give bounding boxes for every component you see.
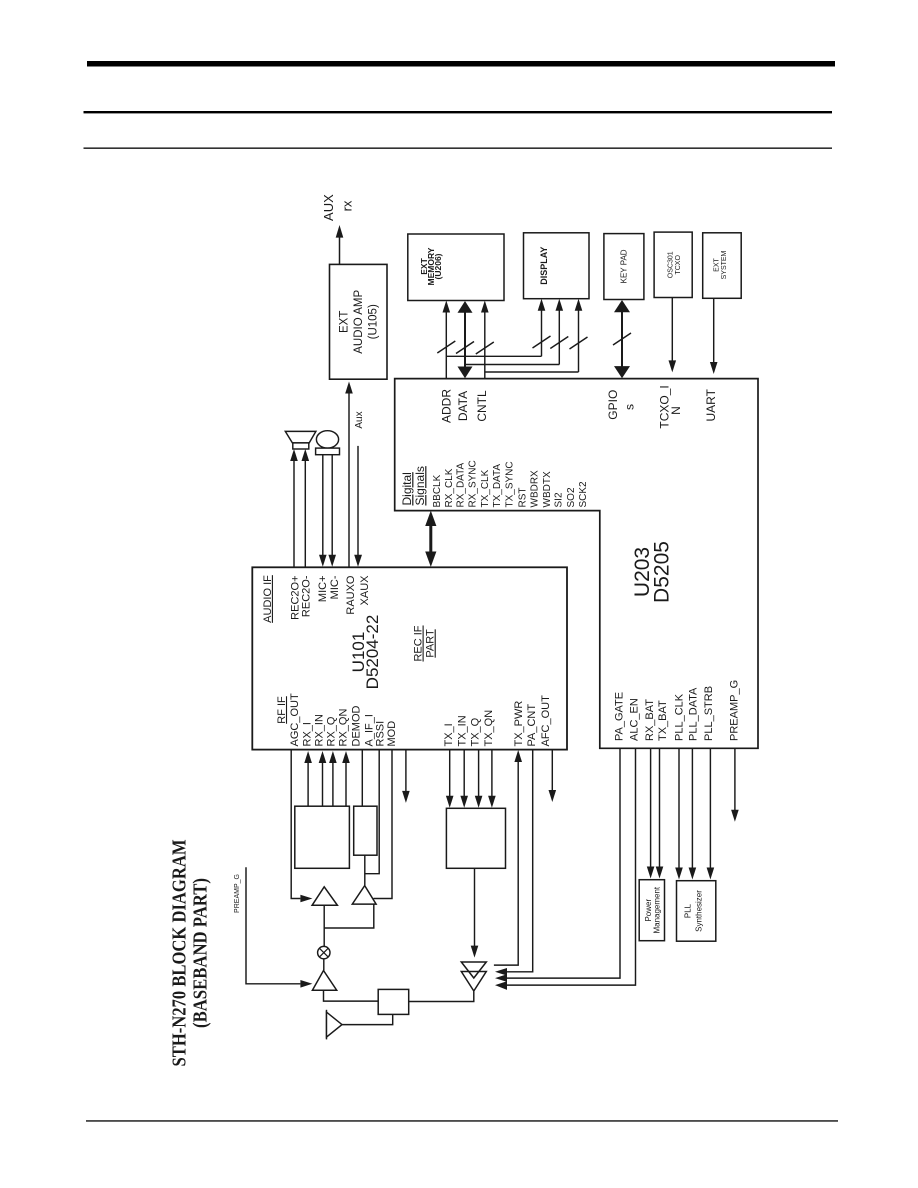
- pin label A_IF_I: [363, 714, 375, 746]
- speaker symbol: [285, 431, 316, 449]
- svg-text:REC2O-: REC2O-: [300, 575, 312, 617]
- wire AGC_OUT to amp A1: [291, 750, 312, 903]
- svg-text:Signals: Signals: [413, 466, 427, 505]
- pin label TCXO_IN: [658, 385, 684, 428]
- antenna ANT: [327, 1010, 343, 1040]
- bus slash DISPLAY 3: [570, 337, 588, 349]
- svg-text:RAUXO: RAUXO: [345, 575, 357, 615]
- wire RSSI to amp A2: [374, 750, 393, 899]
- wire RX_I from filter: [304, 751, 312, 806]
- pin label PREAMP_G: [728, 680, 740, 741]
- pin label PLL_DATA: [687, 687, 699, 741]
- pin label RX_CLK: [444, 468, 455, 507]
- pin label RAUXO: [345, 575, 357, 615]
- svg-text:PA_GATE: PA_GATE: [613, 692, 625, 741]
- wire AFC_OUT output arrow: [549, 750, 557, 803]
- block RX filter: [295, 806, 350, 868]
- svg-text:RX_CLK: RX_CLK: [444, 468, 455, 507]
- pin label RX_QN: [337, 709, 349, 747]
- svg-text:RSSI: RSSI: [374, 721, 386, 747]
- wire RX_QN from filter: [342, 751, 350, 806]
- svg-text:Aux: Aux: [354, 411, 365, 428]
- wire PLL_STRB to PLL Synthesizer: [707, 748, 715, 879]
- svg-text:D5205: D5205: [650, 541, 673, 603]
- header medium rule: [84, 111, 833, 113]
- wire TX_QN to TX filter: [488, 750, 496, 808]
- pin label TX_BAT: [657, 700, 669, 741]
- wire DATA bus double arrow: [458, 301, 473, 378]
- wire digital bus double arrow U203-U101: [425, 511, 436, 567]
- pin label PA_CNT: [526, 704, 538, 747]
- pin label ADDR: [440, 389, 454, 423]
- svg-text:UART: UART: [704, 388, 718, 421]
- block PLL Synthesizer: [677, 881, 716, 942]
- wire TX_PWR sense: [494, 750, 522, 965]
- svg-text:AUDIO AMP: AUDIO AMP: [353, 290, 365, 354]
- mixer M1: [318, 946, 330, 958]
- wire IF filter to amp A2: [364, 855, 366, 885]
- svg-text:TX_I: TX_I: [443, 723, 455, 746]
- pin label PLL_STRB: [703, 686, 715, 741]
- wire TX_I to TX filter: [446, 750, 454, 808]
- node PREAMP_G label: [234, 874, 241, 913]
- svg-text:AFC_OUT: AFC_OUT: [540, 695, 552, 747]
- wire A1 A2 output junction: [324, 904, 374, 947]
- svg-text:rx: rx: [339, 200, 354, 211]
- wire CNTL bus to EXT MEMORY: [481, 301, 489, 379]
- wire ADDR bus to EXT MEMORY: [443, 301, 451, 379]
- pin label RST: [517, 488, 528, 508]
- node AUX rx: [321, 194, 354, 221]
- amplifier A1: [312, 887, 337, 906]
- svg-text:TX_SYNC: TX_SYNC: [504, 461, 515, 507]
- wire DISPLAY bus 1: [446, 299, 545, 357]
- pin label TX_SYNC: [504, 461, 515, 507]
- wire PREAMP_G output arrow: [731, 748, 739, 821]
- wire TCXO_IN from OSC301: [669, 298, 677, 373]
- pin label TX_IN: [456, 715, 468, 746]
- wire MOD output arrow: [402, 750, 410, 803]
- svg-text:N: N: [669, 406, 683, 415]
- svg-text:RX_I: RX_I: [301, 722, 313, 746]
- wire duplexer to PA: [409, 991, 474, 1001]
- pin label UART: [704, 388, 718, 421]
- wire RX_IN from filter: [319, 751, 327, 806]
- block U101 D5204-22 outline: [252, 567, 567, 749]
- svg-text:RX_QN: RX_QN: [337, 709, 349, 747]
- svg-text:DATA: DATA: [456, 391, 470, 421]
- pin label XAUX: [359, 575, 371, 606]
- footer rule: [86, 1120, 838, 1121]
- pin label RX_IN: [313, 714, 325, 746]
- svg-text:WBDRX: WBDRX: [529, 470, 540, 508]
- block TX filter: [446, 808, 505, 868]
- svg-text:RX_DATA: RX_DATA: [456, 463, 467, 508]
- bus slash GPIOs: [613, 333, 631, 345]
- power amplifier PA double triangle: [461, 962, 486, 991]
- svg-text:OSC301: OSC301: [668, 251, 675, 278]
- svg-text:MIC-: MIC-: [329, 575, 341, 599]
- wire AUX rx output arrow: [336, 225, 344, 264]
- svg-text:EXT: EXT: [338, 311, 350, 333]
- bus slash DISPLAY 2: [550, 337, 568, 349]
- svg-text:PLL_STRB: PLL_STRB: [703, 686, 715, 741]
- node Digital Signals heading: [400, 466, 427, 505]
- pin label BBCLK: [432, 474, 443, 507]
- bus slash DISPLAY 1: [533, 336, 551, 348]
- pin label ALC_EN: [628, 698, 640, 741]
- wire REC2O- to speaker: [302, 449, 310, 567]
- svg-text:s: s: [623, 404, 637, 410]
- block DISPLAY: [524, 233, 590, 299]
- wire MIC+ input: [319, 455, 327, 567]
- svg-text:WBDTX: WBDTX: [542, 471, 553, 507]
- svg-text:KEY PAD: KEY PAD: [619, 249, 628, 283]
- svg-text:ALC_EN: ALC_EN: [628, 698, 640, 741]
- svg-text:Digital: Digital: [400, 472, 414, 505]
- pin label AGC_OUT: [289, 693, 301, 746]
- svg-text:MOD: MOD: [386, 721, 398, 747]
- svg-text:BBCLK: BBCLK: [432, 474, 443, 507]
- svg-text:EXT: EXT: [714, 257, 721, 271]
- svg-text:SI2: SI2: [554, 492, 565, 507]
- svg-text:TX_IN: TX_IN: [456, 715, 468, 746]
- pin label SO2: [566, 487, 577, 507]
- node RF IF heading: [276, 696, 288, 724]
- wire DEMOD to IF filter: [361, 750, 363, 807]
- wire antenna feed: [342, 1014, 393, 1024]
- pin label MIC+: [317, 576, 329, 603]
- node Aux label: [354, 411, 365, 428]
- svg-text:TX_DATA: TX_DATA: [492, 464, 503, 508]
- pin label RX_I: [301, 722, 313, 746]
- pin label TX_Q: [469, 717, 481, 746]
- wire ALC_EN to PA: [495, 748, 636, 990]
- svg-text:MIC+: MIC+: [317, 576, 329, 603]
- svg-text:Power: Power: [644, 899, 653, 922]
- wire RX_BAT to Power Management: [647, 748, 655, 878]
- svg-text:AGC_OUT: AGC_OUT: [289, 693, 301, 746]
- wire DISPLAY bus 3: [485, 299, 583, 372]
- title STH-N270 BLOCK DIAGRAM (BASEBAND PART): [169, 839, 212, 1066]
- pin label PA_GATE: [613, 692, 625, 741]
- wire PLL_DATA to PLL Synthesizer: [689, 748, 697, 879]
- amplifier A2: [352, 886, 376, 905]
- block KEY PAD: [604, 234, 644, 300]
- pin label SI2: [554, 492, 565, 507]
- svg-text:RX_SYNC: RX_SYNC: [468, 460, 479, 507]
- wire DISPLAY bus 2: [465, 299, 563, 365]
- svg-text:ADDR: ADDR: [440, 389, 454, 423]
- svg-text:TX_BAT: TX_BAT: [657, 700, 669, 741]
- wire GPIOs bus double arrow to KEY PAD: [614, 300, 630, 378]
- svg-text:Management: Management: [653, 886, 662, 933]
- svg-text:TX_PWR: TX_PWR: [513, 701, 525, 747]
- pin label WBDRX: [529, 470, 540, 508]
- node REC IF PART heading: [413, 625, 437, 661]
- pin label DEMOD: [350, 706, 362, 747]
- pin label REC2O+: [290, 576, 302, 620]
- svg-text:RF IF: RF IF: [276, 696, 288, 724]
- svg-text:RX_Q: RX_Q: [325, 716, 337, 746]
- node AUDIO IF heading: [262, 575, 274, 623]
- svg-text:AUDIO IF: AUDIO IF: [262, 575, 274, 623]
- svg-text:DEMOD: DEMOD: [350, 706, 362, 747]
- svg-text:(U206): (U206): [433, 253, 443, 279]
- svg-text:GPIO: GPIO: [606, 390, 620, 420]
- svg-text:SCK2: SCK2: [578, 481, 589, 508]
- pin label TX_PWR: [513, 701, 525, 747]
- bus slash ADDR: [437, 341, 455, 353]
- block OSC301 TCXO: [654, 232, 692, 297]
- wire PREAMP_G to amp A3: [246, 867, 312, 987]
- svg-text:SYSTEM: SYSTEM: [721, 250, 728, 279]
- pin label RX_Q: [325, 716, 337, 746]
- pin label GPIOs: [606, 390, 636, 420]
- wire PA_CNT to PA: [495, 750, 533, 976]
- svg-text:DISPLAY: DISPLAY: [539, 247, 549, 285]
- wire TX_BAT to Power Management: [656, 748, 664, 878]
- microphone symbol: [316, 431, 340, 455]
- header thin rule: [84, 148, 833, 149]
- wire TX filter to PA: [471, 868, 479, 957]
- block EXT SYSTEM: [703, 233, 742, 298]
- svg-text:RST: RST: [517, 488, 528, 508]
- bus slash DATA: [456, 342, 474, 354]
- wire REC2O+ to speaker: [290, 449, 298, 567]
- block Power Management: [639, 880, 664, 941]
- wire RAUXO to EXT AUDIO AMP: [345, 382, 353, 568]
- svg-text:PREAMP_G: PREAMP_G: [234, 874, 241, 913]
- svg-text:XAUX: XAUX: [359, 575, 371, 606]
- pin label TX_DATA: [492, 464, 503, 508]
- svg-text:(BASEBAND PART): (BASEBAND PART): [190, 878, 212, 1028]
- pin label RX_BAT: [644, 699, 656, 741]
- wire TX_Q to TX filter: [475, 750, 483, 808]
- pin label MOD: [386, 721, 398, 747]
- pin label CNTL: [475, 390, 489, 422]
- pin label SCK2: [578, 481, 589, 508]
- svg-text:PART: PART: [425, 629, 437, 658]
- pin label TX_CLK: [480, 469, 491, 507]
- svg-text:TCXO: TCXO: [675, 255, 682, 275]
- svg-text:RX_IN: RX_IN: [313, 714, 325, 746]
- bus slash CNTL: [476, 342, 494, 354]
- svg-text:D5204-22: D5204-22: [363, 615, 382, 690]
- svg-text:STH-N270 BLOCK DIAGRAM: STH-N270 BLOCK DIAGRAM: [169, 839, 191, 1066]
- header thick rule: [87, 61, 835, 67]
- svg-text:PLL_DATA: PLL_DATA: [687, 687, 699, 741]
- pin label REC2O-: [300, 575, 312, 617]
- wire TX_IN to TX filter: [460, 750, 468, 808]
- svg-text:PREAMP_G: PREAMP_G: [728, 680, 740, 741]
- svg-text:(U105): (U105): [367, 304, 379, 339]
- amplifier A3: [312, 971, 336, 991]
- pin label WBDTX: [542, 471, 553, 507]
- wire A_IF_I: [365, 750, 379, 874]
- svg-text:PA_CNT: PA_CNT: [526, 704, 538, 747]
- svg-text:TX_CLK: TX_CLK: [480, 469, 491, 507]
- wire MIC- input: [328, 455, 336, 567]
- svg-text:SO2: SO2: [566, 487, 577, 507]
- block EXT MEMORY (U206): [408, 234, 504, 301]
- block IF filter: [354, 806, 377, 855]
- pin label TX_I: [443, 723, 455, 746]
- block EXT AUDIO AMP (U105): [330, 264, 388, 379]
- svg-text:Synthesizer: Synthesizer: [694, 890, 703, 932]
- svg-text:PLL_CLK: PLL_CLK: [673, 693, 685, 741]
- pin label RX_DATA: [456, 463, 467, 508]
- pin label DATA: [456, 391, 470, 421]
- wire PLL_CLK to PLL Synthesizer: [675, 748, 683, 879]
- pin label RSSI: [374, 721, 386, 747]
- pin label PLL_CLK: [673, 693, 685, 741]
- pin label AFC_OUT: [540, 695, 552, 747]
- wire RX_Q from filter: [329, 751, 337, 806]
- pin label MIC-: [329, 575, 341, 599]
- block U203 D5205 outline: [395, 379, 758, 749]
- pin label RX_SYNC: [468, 460, 479, 507]
- svg-text:REC IF: REC IF: [413, 625, 425, 661]
- wire UART from EXT SYSTEM: [710, 298, 718, 374]
- wire amp A3 to duplexer: [324, 990, 379, 1001]
- svg-text:TX_QN: TX_QN: [483, 710, 495, 747]
- block duplexer: [378, 989, 409, 1014]
- wire PA_GATE to PA: [495, 748, 620, 982]
- svg-text:AUX: AUX: [321, 194, 336, 221]
- pin label TX_QN: [483, 710, 495, 747]
- svg-text:CNTL: CNTL: [475, 390, 489, 422]
- wire mixer to amp A3: [323, 959, 325, 971]
- svg-text:TX_Q: TX_Q: [469, 717, 481, 746]
- svg-text:PLL: PLL: [684, 903, 693, 918]
- svg-text:RX_BAT: RX_BAT: [644, 699, 656, 741]
- wire XAUX input: [354, 446, 362, 567]
